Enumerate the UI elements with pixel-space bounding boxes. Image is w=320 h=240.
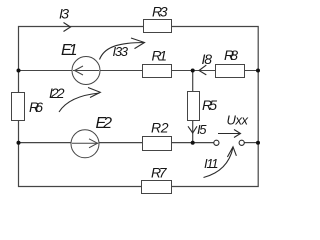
- svg-text:R3: R3: [152, 4, 168, 20]
- svg-text:R5: R5: [202, 97, 217, 113]
- svg-text:E1: E1: [61, 42, 78, 59]
- svg-text:I5: I5: [197, 122, 207, 137]
- svg-text:R2: R2: [151, 120, 169, 136]
- svg-text:I8: I8: [202, 51, 213, 67]
- svg-text:I33: I33: [113, 44, 129, 59]
- svg-text:I22: I22: [49, 85, 65, 101]
- svg-text:R6: R6: [29, 99, 43, 115]
- svg-text:R8: R8: [224, 47, 238, 63]
- svg-text:I11: I11: [204, 156, 219, 171]
- svg-text:R1: R1: [152, 48, 168, 64]
- svg-text:R7: R7: [151, 165, 168, 181]
- svg-text:Uxx: Uxx: [227, 113, 249, 128]
- svg-text:I3: I3: [59, 6, 69, 22]
- svg-text:E2: E2: [96, 115, 113, 132]
